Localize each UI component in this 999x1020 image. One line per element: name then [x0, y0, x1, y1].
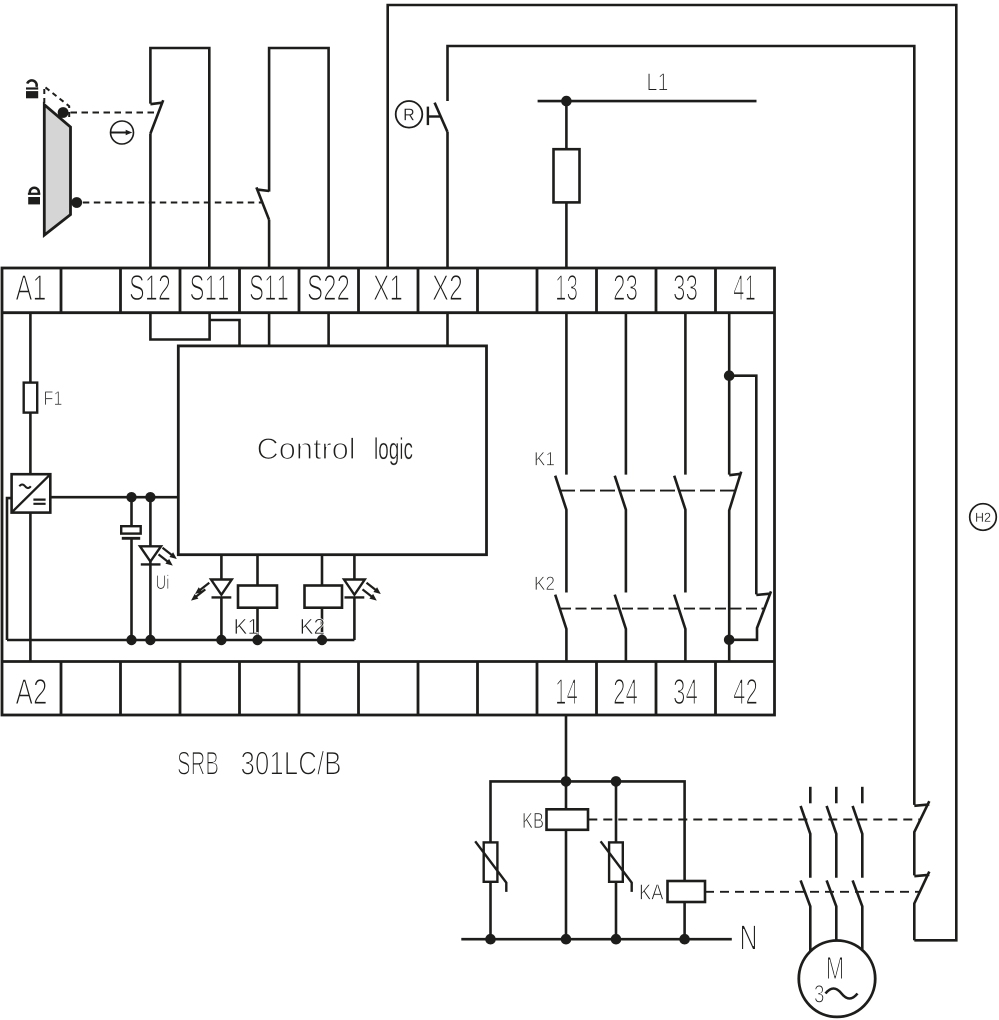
- bottom terminal row cell dividers: [61, 662, 716, 716]
- mechanical link dashed upper (door to S12 contact): [71, 112, 159, 114]
- label F1: [45, 391, 62, 405]
- KA main contact 1: [801, 880, 811, 951]
- LED K2 indicator: [344, 580, 365, 595]
- label L1: [648, 73, 667, 90]
- terminal S22: [308, 275, 349, 300]
- wire logic to K1 coil: [256, 555, 259, 586]
- varistor V2: [615, 781, 618, 842]
- terminal 34: [674, 679, 697, 704]
- wire S12 jumper: [150, 313, 209, 340]
- feedback loop X2 (inner): [448, 46, 915, 805]
- door open position (dashed outline): [44, 87, 69, 120]
- junction Ui/bus: [145, 635, 155, 645]
- terminal 24: [614, 679, 637, 704]
- wire 13 to K1 contact: [565, 313, 568, 475]
- terminal 33: [674, 275, 697, 300]
- junction varistor2 top: [611, 776, 622, 787]
- wire 33 to K1 contact: [684, 313, 687, 475]
- fuse F1: [24, 383, 38, 413]
- relay coil K2: [305, 586, 343, 608]
- terminal A1: [16, 275, 46, 300]
- KB main contact 1: [801, 806, 811, 878]
- label Ui: [157, 575, 169, 590]
- LED Ui: [149, 497, 152, 640]
- wire S22 into logic: [327, 313, 330, 346]
- junction V1/N: [485, 934, 496, 945]
- contactor mirror NC contact KB (right column): [914, 801, 929, 875]
- K2 NO contact 33-34: [674, 595, 685, 662]
- junction 41 top: [724, 370, 735, 381]
- junction 14/bus: [561, 776, 572, 787]
- open padlock icon: [26, 87, 38, 98]
- feedback loop X1 (outer): [388, 5, 957, 940]
- KB main contact 2: [827, 806, 837, 878]
- wire S11 into logic: [210, 320, 240, 346]
- terminal 42: [734, 679, 757, 704]
- wire A1 to fuse F1: [29, 313, 32, 383]
- suppressor bus top: [491, 781, 685, 881]
- relay body outline: [2, 268, 775, 715]
- junction capacitor/bus: [126, 635, 136, 645]
- junction 41 bottom: [724, 635, 735, 646]
- label K2 (contacts): [535, 576, 554, 590]
- control logic box: [178, 346, 486, 555]
- junction capacitor/supply: [126, 492, 136, 502]
- wire F1 to power supply: [29, 413, 32, 475]
- K2 NO contact 23-24: [615, 595, 626, 662]
- K1 linkage dashed: [560, 490, 735, 492]
- LED K1 indicator: [211, 580, 232, 595]
- external loop S12-S11: [150, 48, 209, 268]
- K2 linkage dashed: [560, 608, 765, 610]
- actuator contact point lower: [71, 197, 82, 208]
- top terminal row bottom edge: [2, 311, 775, 314]
- wire 41 down with junction: [728, 313, 731, 475]
- 0V bus: [7, 639, 354, 642]
- label M: [828, 957, 843, 979]
- top terminal row cell dividers: [61, 268, 716, 313]
- motor supply stub L2: [835, 787, 838, 804]
- label R: [405, 109, 414, 121]
- wire logic to LED2: [353, 555, 356, 580]
- label K1 (contacts): [535, 452, 554, 465]
- K1 NO contact 23-24: [615, 476, 626, 593]
- K1 NO contact 33-34: [674, 476, 685, 593]
- closed padlock icon: [28, 193, 40, 205]
- junction V2/N: [611, 934, 622, 945]
- wire 14 down to KB circuit: [565, 715, 568, 809]
- wire S11(2) into logic: [268, 313, 271, 346]
- terminal 23: [614, 275, 637, 300]
- junction K2 coil/bus: [317, 635, 327, 645]
- indicator lamp tap H2: [970, 504, 997, 531]
- label N: [742, 925, 756, 949]
- terminal X2: [433, 275, 462, 300]
- terminal A2: [16, 679, 47, 704]
- neutral line N: [461, 938, 732, 941]
- K2 NC contact 41-42 (bypass): [729, 591, 771, 639]
- terminal 14: [557, 679, 578, 704]
- motor M 3-phase: [799, 941, 875, 1017]
- KA main contact 2: [827, 880, 837, 940]
- junction KA/N: [679, 934, 690, 945]
- KA linkage dashed: [705, 891, 920, 893]
- door NC contact channel 2 (mirrored): [268, 220, 271, 268]
- terminal S11: [191, 275, 229, 300]
- motor supply stub L3: [861, 787, 864, 804]
- actuation direction symbol (circle with arrow): [111, 121, 134, 144]
- power supply unit (AC/DC): [12, 474, 51, 512]
- varistor V1: [484, 842, 498, 881]
- safety door (gray vane): [44, 105, 70, 235]
- junction Ui/supply: [145, 492, 155, 502]
- capacitor C1: [130, 497, 133, 640]
- wire logic to LED1: [220, 555, 223, 580]
- KB linkage dashed: [588, 819, 920, 821]
- terminal X1: [374, 275, 402, 300]
- label Control logic: [258, 437, 412, 465]
- contactor mirror NC contact KA (right column): [914, 872, 929, 941]
- reset button R contact: [435, 103, 448, 132]
- actuator contact point upper: [58, 107, 69, 118]
- contactor coil KA: [668, 881, 706, 902]
- terminal 41: [733, 275, 755, 300]
- label K2 (coil): [301, 619, 324, 634]
- wire L1 to fuse: [565, 101, 568, 268]
- junction KB/N: [561, 934, 572, 945]
- external loop S11-S22: [269, 48, 329, 268]
- door NC contact channel 1: [149, 134, 152, 268]
- K2 NO contact 13-14: [555, 595, 566, 662]
- label K1 (coil): [235, 619, 258, 634]
- supply line L1: [538, 100, 757, 103]
- terminal S11 (second): [250, 275, 288, 300]
- line fuse: [554, 149, 580, 202]
- bypass wire to K2 NC contact: [729, 376, 756, 595]
- contactor coil KB: [547, 809, 589, 830]
- device label SRB 301LC/B: [178, 751, 340, 775]
- KA main contact 3: [853, 880, 863, 950]
- motor supply stub L1: [809, 787, 812, 804]
- junction LED1/bus: [216, 635, 226, 645]
- junction K1 coil/bus: [252, 635, 262, 645]
- wire PSU return to 0V bus: [7, 498, 12, 640]
- wire PSU output to control logic: [50, 496, 178, 499]
- bottom terminal row top edge: [2, 660, 775, 663]
- K1 NO contact 13-14: [555, 476, 566, 593]
- wire X2 into logic: [446, 313, 449, 346]
- label KB: [523, 813, 543, 828]
- relay coil K1: [238, 586, 277, 608]
- terminal 13: [557, 275, 578, 300]
- junction L1/fuse: [561, 96, 572, 107]
- KB main contact 3: [853, 806, 863, 878]
- wire 23 to K1 contact: [625, 313, 628, 475]
- terminal S12: [130, 275, 170, 300]
- mechanical link dashed lower (door to S21 contact): [83, 202, 262, 204]
- wire logic to K2 coil: [321, 555, 324, 586]
- wire PSU to A2: [29, 513, 32, 662]
- label 3: [815, 985, 824, 1003]
- label KA: [641, 884, 664, 899]
- K1 NC contact 41-42: [729, 472, 741, 662]
